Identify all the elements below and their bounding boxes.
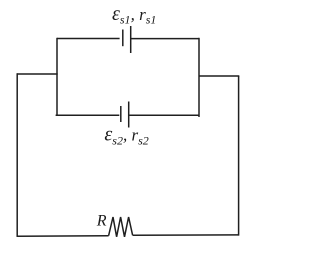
wire: left branch connector — [17, 73, 58, 75]
wire: outer right vertical — [238, 76, 240, 236]
wire: right branch connector — [199, 75, 239, 77]
wire: inner loop right edge — [198, 38, 200, 117]
svg-text:εs1, rs1: εs1, rs1 — [112, 3, 156, 27]
wire: inner loop top-left segment — [57, 38, 120, 40]
wire: outer left vertical — [16, 73, 18, 236]
svg-text:εs2, rs2: εs2, rs2 — [104, 123, 148, 147]
wire: inner loop left edge — [56, 38, 58, 115]
svg-text:R: R — [96, 213, 107, 230]
battery U2 short plate (negative) — [120, 106, 122, 122]
battery U1 long plate (positive) — [130, 26, 132, 53]
wire: inner loop bottom-right segment — [129, 114, 199, 116]
resistor R zigzag — [109, 217, 133, 237]
wire: inner loop bottom-left segment — [56, 114, 120, 116]
battery U1 short plate (negative) — [122, 30, 124, 47]
battery U2 long plate (positive) — [128, 102, 130, 128]
wire: inner loop top-right segment — [131, 38, 199, 40]
wire: outer bottom-right segment — [133, 234, 239, 236]
wire: outer bottom-left segment — [17, 235, 109, 238]
